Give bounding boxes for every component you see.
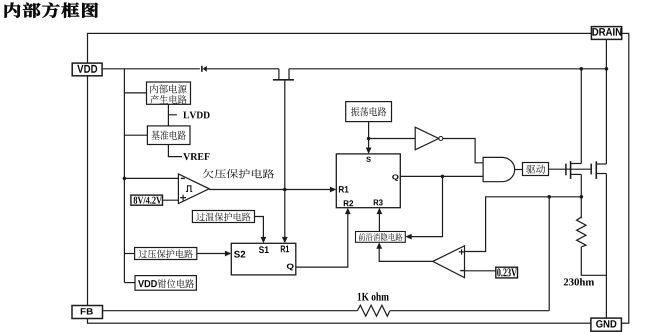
node: FB divider tap bbox=[547, 195, 551, 199]
op-amp UVLO comparator bbox=[178, 174, 209, 204]
wire M2 drain lead bbox=[596, 163, 606, 165]
wire FB pin to 1K resistor bbox=[103, 310, 358, 312]
block: oscillator 振荡电路 bbox=[346, 102, 392, 122]
node: oscillator branch bbox=[367, 137, 371, 141]
block: LEB 前沿消隐电路 bbox=[356, 232, 406, 243]
wire OTP output to protection latch S1 bbox=[255, 217, 264, 238]
wire stub to bandgap block bbox=[124, 134, 147, 136]
node: DRAIN line junction bbox=[605, 67, 609, 71]
wire Q feedback to LEB block bbox=[411, 176, 443, 236]
node: UVLO sense tap bbox=[123, 177, 127, 181]
transistor M2 (power FET) bbox=[590, 164, 592, 175]
block: 8V/4.2V threshold bbox=[131, 195, 163, 205]
label 1K ohm bbox=[358, 292, 389, 300]
node: UVLO output / startup gate junction bbox=[283, 188, 287, 192]
wire protection latch Q to PWM latch R2 bbox=[296, 213, 348, 267]
title 内部方框图 bbox=[5, 3, 98, 18]
wire M1 drain up to rail bbox=[580, 69, 582, 164]
wire current sense line bbox=[465, 197, 582, 252]
block: OVP 过压保护电路 bbox=[135, 248, 197, 260]
wire stub to internal supply block bbox=[124, 92, 146, 94]
resistor R1 1K ohm bbox=[357, 305, 389, 316]
wire oscillator to inverter bbox=[369, 138, 415, 140]
block: internal supply 内部电源产生电路 bbox=[147, 82, 191, 104]
label LVDD bbox=[183, 112, 209, 119]
wire VREF bbox=[168, 145, 182, 157]
wire CS comparator - input to 0.23V bbox=[465, 270, 496, 272]
pin FB bbox=[72, 306, 103, 319]
startup pass transistor Q1 bbox=[278, 69, 280, 79]
wire M1 source down to sense node bbox=[580, 174, 582, 218]
wire CS comparator output to LEB bbox=[379, 247, 433, 261]
wire left VDD bus bbox=[123, 69, 125, 283]
wire FB tap down bbox=[548, 197, 550, 311]
pin VDD bbox=[72, 63, 102, 76]
wire stub to VDD clamp block bbox=[124, 282, 134, 284]
block: VDD clamp VDD钳位电路 bbox=[135, 276, 196, 291]
block: bandgap 基准电路 bbox=[147, 126, 190, 145]
pin DRAIN bbox=[591, 27, 621, 40]
wire stub to OVP block bbox=[124, 253, 134, 255]
wire startup transistor gate down to protection latch R1 bbox=[284, 80, 286, 237]
wire 1K resistor to FB tap bbox=[390, 310, 549, 312]
wire oscillator to S input bbox=[368, 122, 370, 149]
AND gate U5 bbox=[483, 157, 515, 181]
resistor R2 230hm sense bbox=[577, 217, 586, 247]
wire VDD rail to diode bbox=[103, 68, 200, 70]
block: OTP 过温保护电路 bbox=[192, 211, 254, 223]
node: current sense node bbox=[580, 195, 584, 199]
wire sense resistor bottom to ground bbox=[581, 247, 606, 275]
wire OVP output to protection latch S2 bbox=[197, 253, 226, 255]
inverter U4 bbox=[415, 127, 439, 150]
wire to UVLO inverting input bbox=[124, 177, 178, 179]
label VREF bbox=[183, 153, 209, 160]
wire PWM latch Q to AND gate bbox=[400, 175, 483, 177]
op-amp CS comparator bbox=[433, 246, 465, 278]
pin GND bbox=[591, 318, 622, 331]
protection latch U2 (S2 S1 R1 Q) bbox=[231, 243, 295, 275]
wire startup transistor to DRAIN net bbox=[289, 68, 606, 70]
PWM latch U3 (S R1 R2 R3 Q) bbox=[336, 154, 400, 208]
diode D1 bbox=[201, 66, 203, 72]
wire diode to startup transistor bbox=[207, 68, 279, 70]
wire 8V/4.2V to UVLO + input bbox=[163, 199, 179, 201]
node: drain of M1 junction bbox=[580, 67, 584, 71]
block: 0.23V reference bbox=[496, 267, 518, 278]
wire M1 drain lead bbox=[571, 163, 582, 165]
transistor M1 (sense FET) bbox=[565, 164, 567, 176]
wire M2 source down to GND pin bbox=[605, 174, 607, 319]
wire LEB output to R3 bbox=[378, 213, 380, 232]
wire inverter output to AND gate bbox=[443, 139, 483, 163]
outer boundary box bbox=[88, 33, 629, 323]
wire M1 source lead bbox=[571, 173, 582, 175]
wire DRAIN pin down to M2 drain bbox=[605, 40, 607, 165]
wire AND gate to driver bbox=[515, 169, 523, 171]
wire driver to MOSFET gates bbox=[549, 168, 592, 170]
label 欠压保护电路 bbox=[203, 169, 275, 178]
node: Q feedback junction bbox=[441, 175, 445, 179]
label 230hm bbox=[564, 278, 594, 285]
block: driver 驱动 bbox=[523, 163, 549, 176]
wire M2 source lead bbox=[596, 173, 606, 175]
wire LVDD bbox=[168, 104, 177, 126]
wire UVLO output to R1 of PWM latch bbox=[209, 189, 331, 191]
